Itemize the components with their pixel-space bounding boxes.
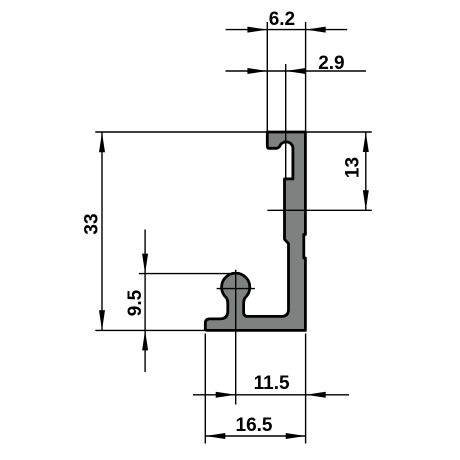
bottom-right extension	[305, 334, 307, 444]
2.9 right arrow	[286, 68, 306, 74]
dim line 2.9	[226, 70, 367, 72]
13 bottom extension line	[267, 209, 371, 211]
9.5 bottom arrow	[142, 330, 148, 350]
ball crosshair horizontal	[217, 288, 255, 290]
16.5 left arrow	[205, 433, 225, 439]
vertical extension 305.6	[305, 22, 307, 132]
2.9 left arrow	[247, 68, 267, 74]
svg-text:9.5: 9.5	[125, 289, 146, 316]
top long extension line	[95, 131, 372, 133]
svg-text:2.9: 2.9	[318, 53, 344, 74]
ball centerline / extension	[235, 270, 237, 405]
dim line 33	[101, 132, 103, 330]
svg-text:16.5: 16.5	[236, 415, 273, 436]
ball top extension line	[139, 273, 236, 275]
bottom long extension line	[95, 329, 205, 331]
profile body (extrusion cross-section)	[205, 132, 305, 330]
bottom-left extension	[204, 334, 206, 444]
arrowheads	[99, 27, 369, 439]
thin lines	[95, 22, 372, 444]
svg-text:6.2: 6.2	[269, 9, 295, 30]
16.5 right arrow	[286, 433, 306, 439]
9.5 top arrow	[142, 254, 148, 274]
svg-text:13: 13	[343, 157, 364, 178]
dim line 11.5	[193, 394, 349, 396]
svg-text:11.5: 11.5	[254, 373, 290, 394]
svg-text:33: 33	[82, 213, 103, 234]
dim line 16.5	[205, 435, 305, 437]
vertical extension 267.3	[266, 22, 268, 132]
dim line 6.2	[226, 29, 348, 31]
dim line 9.5	[144, 230, 146, 373]
11.5 right arrow	[306, 392, 326, 398]
vertical extension 285.7	[285, 64, 287, 179]
13 top arrow	[363, 132, 369, 152]
dim line 13	[365, 132, 367, 210]
13 bottom arrow	[363, 190, 369, 210]
6.2 left arrow	[247, 27, 267, 33]
11.5 left arrow	[216, 392, 236, 398]
33 top arrow	[99, 132, 105, 152]
6.2 right arrow	[306, 27, 326, 33]
33 bottom arrow	[99, 310, 105, 330]
